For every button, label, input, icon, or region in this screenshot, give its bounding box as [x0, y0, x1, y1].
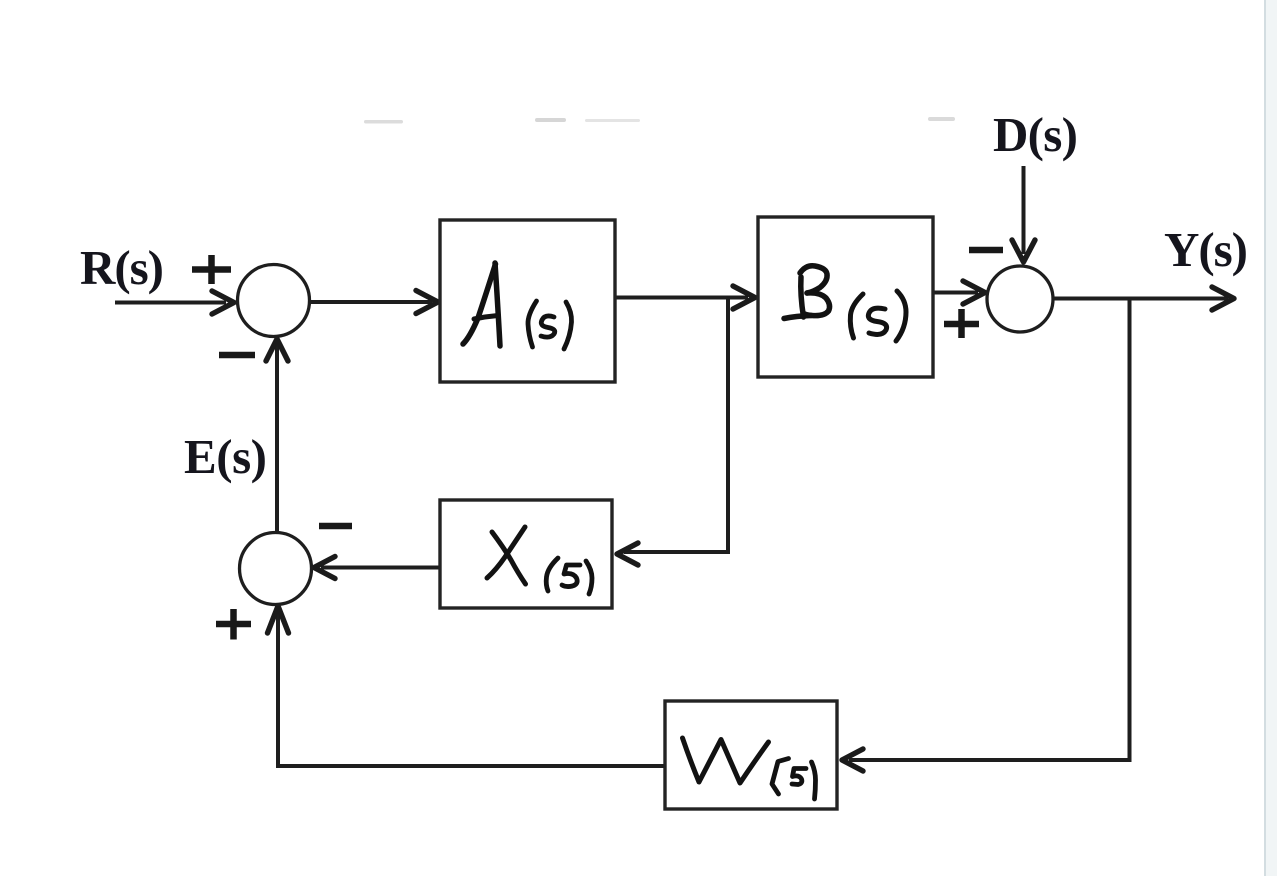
wire S2 to Y(s) output: [1053, 297, 1228, 301]
svg-text:D(s): D(s): [993, 107, 1078, 162]
right edge scrollbar strip: [1266, 0, 1277, 876]
handwritten (s) in block X: [546, 558, 558, 591]
faint smudge dash 2: [535, 118, 566, 122]
minus sign below S1: [219, 352, 255, 359]
wire R(s) input: [115, 301, 226, 305]
plus sign at S2 input: [944, 309, 979, 338]
block X(s): [440, 500, 612, 608]
plus sign at S1 input: [192, 255, 231, 284]
wire tap junction to X input: [624, 298, 728, 553]
handwritten B in block B: [801, 277, 804, 317]
arrowhead into A: [416, 291, 438, 314]
summing junction S1: [238, 265, 310, 337]
wire W output to S3: [278, 613, 665, 766]
arrowhead into W: [842, 749, 863, 771]
handwritten (s) in block W: [772, 759, 789, 795]
minus sign at D input: [969, 247, 1003, 254]
arrowhead into S1: [212, 291, 234, 314]
arrowhead into X: [617, 543, 638, 565]
wire X output to S3: [321, 566, 440, 570]
block W(s): [665, 701, 837, 809]
wire output branch down to W input: [849, 299, 1130, 761]
summing junction S2: [987, 266, 1053, 332]
faint smudge dash 3: [585, 119, 640, 122]
handwritten W in block W: [683, 738, 769, 783]
wire D(s) input: [1022, 166, 1026, 254]
faint smudge dash 1: [364, 120, 403, 124]
minus sign above S3: [319, 523, 352, 530]
block B(s): [758, 217, 933, 377]
faint smudge dash 4: [928, 117, 955, 121]
wire A to B: [615, 296, 748, 300]
arrowhead Y(s) output: [1212, 287, 1234, 310]
handwritten (s) in block A: [528, 301, 537, 347]
arrowhead D into S2 top: [1012, 240, 1035, 262]
arrowhead into S3 bottom: [268, 606, 289, 633]
arrowhead into S2: [963, 281, 985, 304]
plus sign below S3: [216, 609, 251, 640]
wire S1 to A: [310, 300, 432, 304]
wire E(s) S3 to S1: [275, 345, 279, 532]
arrowhead E into S1 bottom: [266, 339, 288, 361]
svg-text:Y(s): Y(s): [1164, 222, 1248, 277]
arrowhead into S3 right: [314, 557, 335, 579]
handwritten X in block X: [492, 532, 526, 584]
svg-text:R(s): R(s): [80, 240, 164, 295]
arrowhead into B: [733, 286, 755, 309]
svg-text:E(s): E(s): [184, 429, 267, 484]
wire B to S2: [933, 291, 978, 295]
handwritten (s) in block B: [850, 294, 863, 338]
summing junction S3: [240, 533, 312, 605]
block A(s): [440, 220, 615, 382]
handwritten A in block A: [463, 264, 496, 344]
